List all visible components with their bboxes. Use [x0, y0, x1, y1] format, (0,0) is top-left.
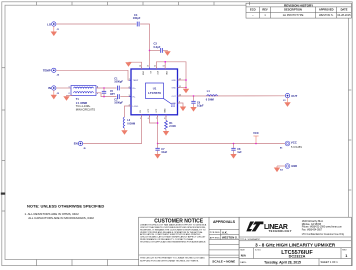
svg-text:13: 13	[163, 65, 165, 67]
node IN+	[103, 87, 105, 89]
svg-text:SHEET 1 OF 1: SHEET 1 OF 1	[321, 260, 339, 264]
LT logo	[246, 222, 254, 232]
ground at pin9	[180, 107, 186, 112]
wire VCC pins 6,7	[150, 115, 158, 123]
wire C4 to pin 15	[140, 24, 149, 67]
svg-text:SIZE: SIZE	[240, 250, 245, 252]
svg-text:16: 16	[139, 65, 141, 67]
svg-text:IC NO.: IC NO.	[255, 250, 262, 252]
op IC U1 LTC5576	[129, 65, 181, 119]
svg-text:DATE:: DATE:	[240, 261, 247, 264]
svg-text:14: 14	[154, 65, 156, 67]
svg-text:Phone: (408)432-1900 www.lin: Phone: (408)432-1900 www.linear.com	[302, 226, 342, 229]
capacitor C8	[231, 144, 242, 155]
svg-text:WESTON S.: WESTON S.	[319, 13, 334, 17]
svg-text:04-28-2015: 04-28-2015	[337, 13, 351, 17]
wire VCC rail	[158, 143, 285, 145]
svg-text:1000pF: 1000pF	[114, 81, 123, 84]
svg-text:WESTON S.: WESTON S.	[222, 236, 238, 240]
svg-text:1st PROTOTYPE: 1st PROTOTYPE	[283, 13, 304, 17]
capacitor C1	[114, 78, 131, 91]
svg-text:1: 1	[345, 254, 347, 258]
svg-text:15: 15	[147, 65, 149, 67]
capacitor C2	[114, 94, 131, 104]
svg-text:1630 McCarthy Blvd.: 1630 McCarthy Blvd.	[302, 220, 324, 223]
ground at T1	[63, 96, 72, 101]
node pins 6-7	[157, 122, 159, 124]
svg-text:TC1-1-13M+: TC1-1-13M+	[76, 104, 91, 108]
svg-text:REV: REV	[262, 8, 268, 12]
svg-text:GND: GND	[171, 80, 176, 82]
svg-text:N/A: N/A	[241, 254, 247, 258]
capacitor C4	[133, 13, 141, 27]
customer notice block	[139, 217, 240, 265]
svg-text:ALL CAPACITORS ARE IN MICROFAR: ALL CAPACITORS ARE IN MICROFARADS, 0402	[28, 216, 94, 220]
svg-text:LTC Confidential-For Customer: LTC Confidential-For Customer Use Only	[302, 233, 345, 236]
wire LGND pin4 to L2	[125, 106, 132, 117]
ground at C3	[164, 50, 170, 55]
svg-text:GND: GND	[171, 87, 176, 89]
svg-text:DC2322A: DC2322A	[289, 255, 306, 259]
ground at C7	[154, 154, 160, 159]
svg-text:2: 2	[129, 86, 130, 88]
svg-text:LGND: LGND	[133, 106, 139, 108]
svg-text:DATE: DATE	[341, 8, 348, 12]
ground at L2	[121, 128, 127, 135]
ground right of IC	[183, 88, 189, 94]
svg-text:EN: EN	[74, 142, 78, 146]
svg-text:TEMP: TEMP	[133, 80, 139, 82]
node pin11	[185, 87, 187, 89]
svg-text:GND: GND	[141, 71, 143, 76]
svg-text:LTC5576: LTC5576	[148, 91, 161, 95]
svg-text:APPROVALS: APPROVALS	[213, 220, 236, 224]
node VCC rail / C7	[157, 143, 159, 145]
svg-text:Fax: (408)434-0507: Fax: (408)434-0507	[302, 229, 323, 231]
svg-text:--: --	[252, 14, 254, 17]
svg-text:6: 6	[148, 118, 149, 120]
svg-text:OUT: OUT	[291, 94, 297, 98]
svg-text:5: 5	[140, 118, 141, 120]
svg-text:DESCRIPTION: DESCRIPTION	[284, 8, 302, 12]
svg-text:VCC: VCC	[291, 141, 298, 145]
svg-text:GND: GND	[291, 164, 297, 168]
svg-text:A.K.: A.K.	[222, 231, 228, 235]
wire T1 to C2 (IN-)	[96, 93, 117, 97]
svg-text:0.3pF: 0.3pF	[154, 45, 161, 49]
svg-text:IN: IN	[48, 86, 51, 90]
IN connector J2	[48, 86, 60, 95]
ground at IN	[51, 90, 57, 99]
svg-text:REVISION HISTORY: REVISION HISTORY	[284, 3, 314, 7]
svg-text:TECHNOLOGY APPLICATIONS ENGINE: TECHNOLOGY APPLICATIONS ENGINEERING FOR …	[140, 240, 206, 243]
svg-text:1: 1	[129, 79, 130, 81]
node LO/C3 junction	[149, 50, 151, 52]
svg-text:Tuesday, April 28, 2015: Tuesday, April 28, 2015	[264, 260, 301, 264]
capacitor C5 (optional)	[102, 88, 116, 97]
wire EN pin5	[83, 115, 142, 144]
ground at E2	[274, 166, 280, 172]
wire LO to C4	[56, 23, 136, 25]
svg-text:PCB DES.: PCB DES.	[210, 232, 221, 234]
wire IN to T1	[56, 87, 71, 89]
node IN-	[103, 96, 105, 98]
ground at OUT	[284, 98, 290, 107]
svg-text:3 - 8 GHz HIGH LINEARITY UPMIX: 3 - 8 GHz HIGH LINEARITY UPMIXER	[255, 242, 336, 247]
capacitor C7	[155, 144, 167, 155]
svg-text:100pF: 100pF	[133, 16, 141, 20]
node OUT/C6	[193, 95, 195, 97]
svg-text:TEMP: TEMP	[43, 68, 51, 72]
revision history table	[246, 3, 351, 18]
ground at R1	[163, 131, 169, 136]
wire pin10 OUT to J3	[178, 95, 285, 97]
svg-text:TITLE: SCHEMATIC: TITLE: SCHEMATIC	[240, 238, 260, 241]
svg-text:1uF: 1uF	[237, 151, 242, 154]
ground at LO	[51, 26, 57, 36]
svg-text:REV.: REV.	[342, 250, 347, 252]
svg-text:5 V-5.25V: 5 V-5.25V	[291, 146, 302, 149]
wire TEMP to pin 1	[56, 70, 131, 80]
wire pin9 to ground	[178, 103, 184, 107]
svg-text:APP ENG.: APP ENG.	[210, 236, 221, 239]
svg-text:MINI-CIRCUITS: MINI-CIRCUITS	[76, 108, 95, 112]
svg-text:1000pF: 1000pF	[114, 102, 123, 105]
svg-text:ECO: ECO	[250, 8, 256, 12]
capacitor C3	[150, 42, 168, 53]
ground at C6	[190, 107, 196, 112]
svg-text:7: 7	[156, 118, 157, 120]
svg-text:SUPPLIED FOR USE WITH LINEAR T: SUPPLIED FOR USE WITH LINEAR TECHNOLOGY …	[140, 259, 199, 262]
title block	[239, 217, 351, 265]
wire top rail pins 13,14	[156, 62, 186, 88]
wire pin16 to ground	[129, 62, 142, 69]
EN connector J5	[74, 141, 87, 150]
node VCC flag	[255, 143, 257, 145]
TEMP connector J4	[43, 68, 60, 76]
VCC turret E1	[280, 141, 303, 150]
svg-text:TECHNOLOGY: TECHNOLOGY	[269, 229, 292, 233]
svg-text:NOTE: UNLESS OTHERWISE SPECIFI: NOTE: UNLESS OTHERWISE SPECIFIED	[27, 204, 104, 209]
notes	[25, 204, 105, 220]
dark zone marker left	[1, 193, 5, 195]
node pin12	[185, 79, 187, 81]
svg-text:3: 3	[129, 95, 130, 97]
capacitor C6	[191, 96, 204, 108]
svg-text:2: 2	[69, 93, 70, 95]
node C8 on rail	[233, 143, 235, 145]
OUT connector J3	[283, 93, 297, 101]
svg-text:2.61K: 2.61K	[169, 125, 176, 128]
VCC power flag	[253, 131, 259, 143]
svg-text:APPROVED: APPROVED	[319, 8, 334, 12]
svg-text:0 OHM: 0 OHM	[127, 123, 135, 126]
svg-text:3: 3	[97, 93, 98, 95]
svg-text:GND: GND	[165, 71, 167, 76]
node pin13	[164, 61, 166, 63]
svg-text:0 OHM: 0 OHM	[206, 98, 214, 101]
wire pin11 stub	[178, 87, 187, 89]
svg-text:CUSTOMER NOTICE: CUSTOMER NOTICE	[154, 219, 203, 225]
svg-text:OPT: OPT	[110, 94, 115, 96]
wire T1 to C1 (IN+)	[96, 87, 117, 89]
LO connector J1	[47, 22, 60, 31]
wire pin12 stub	[178, 79, 187, 81]
svg-text:VCC: VCC	[253, 131, 259, 135]
inductor L1	[206, 90, 218, 101]
ground at C8	[230, 154, 236, 159]
inductor L2	[123, 117, 135, 128]
ground at pin16	[125, 62, 131, 67]
GND turret E2	[277, 164, 297, 172]
svg-text:0.3pF: 0.3pF	[197, 105, 204, 108]
transformer T1	[69, 86, 100, 112]
svg-text:10uF: 10uF	[161, 151, 167, 154]
svg-text:IN-: IN-	[133, 97, 136, 99]
resistor R1	[165, 115, 177, 131]
svg-text:THIS CIRCUIT IS PROPRIETARY TO: THIS CIRCUIT IS PROPRIETARY TO LINEAR TE…	[140, 256, 205, 259]
svg-text:8: 8	[164, 118, 165, 120]
svg-text:SCALE = NONE: SCALE = NONE	[212, 260, 235, 264]
svg-text:1: 1	[69, 87, 70, 89]
svg-text:Milpitas, CA 95035: Milpitas, CA 95035	[302, 223, 322, 226]
